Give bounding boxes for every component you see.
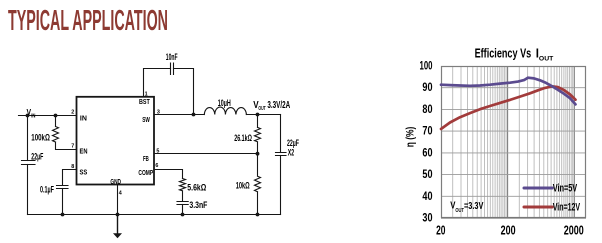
svg-text:2: 2	[71, 109, 74, 115]
svg-text:6: 6	[155, 163, 158, 169]
svg-text:50: 50	[422, 168, 432, 181]
svg-text:EN: EN	[80, 146, 88, 155]
svg-text:2000: 2000	[564, 223, 584, 238]
label VIN	[27, 108, 36, 120]
inductor 10uH	[204, 107, 246, 114]
svg-text:80: 80	[422, 103, 432, 116]
svg-text:5: 5	[156, 148, 159, 154]
schematic labels	[27, 52, 300, 210]
svg-text:40: 40	[422, 190, 432, 203]
resistor 5.6k compensation	[180, 179, 186, 202]
curve Vin=5V purple	[441, 78, 576, 105]
chart horizontal gridlines	[441, 88, 586, 197]
legend text Vin=12V	[553, 202, 581, 214]
pin name EN	[80, 146, 88, 155]
xlabel 2000	[564, 223, 584, 238]
svg-text:22µF: 22µF	[287, 138, 299, 148]
wire ground bus	[28, 214, 281, 216]
label VOUT 3.3V/2A	[253, 100, 290, 112]
capacitor 0.1uF soft-start	[57, 186, 69, 189]
svg-text:90: 90	[422, 81, 432, 94]
value 0.1uF	[40, 185, 54, 195]
value 100k	[31, 133, 50, 143]
svg-text:BST: BST	[139, 97, 150, 106]
node comp ground junction	[181, 213, 185, 217]
pin numbers	[71, 91, 160, 196]
legend line Vin=5V	[524, 187, 552, 190]
svg-text:X2: X2	[288, 147, 294, 157]
ground	[113, 215, 122, 239]
svg-text:20: 20	[436, 223, 445, 238]
node FB junction	[256, 152, 260, 156]
wire COMP	[154, 170, 183, 179]
pin name COMP	[138, 168, 153, 177]
svg-text:3: 3	[157, 109, 160, 115]
value 10uH	[218, 98, 231, 108]
svg-text:η (%): η (%)	[405, 126, 417, 147]
IC pin names	[80, 97, 154, 186]
svg-text:7: 7	[71, 143, 74, 149]
svg-text:3.3V/2A: 3.3V/2A	[267, 100, 290, 111]
svg-text:IN: IN	[31, 113, 36, 119]
node SS ground junction	[61, 213, 65, 217]
legend text Vin=5V	[553, 182, 578, 194]
ylabel 60	[422, 146, 432, 159]
svg-text:TYPICAL APPLICATION: TYPICAL APPLICATION	[8, 5, 168, 37]
wire comp branch lower	[182, 205, 184, 215]
y axis title eta percent	[405, 126, 417, 147]
pin name FB	[143, 154, 149, 163]
annotation VOUT=3.3V	[450, 201, 483, 214]
svg-text:100kΩ: 100kΩ	[31, 133, 50, 143]
svg-text:5.6kΩ: 5.6kΩ	[187, 183, 206, 193]
curve Vin=12V red	[441, 86, 576, 129]
wire BST right riser	[174, 69, 194, 115]
ylabel 70	[422, 125, 432, 138]
pin number 5	[156, 148, 159, 154]
resistor 26.1k upper divider	[255, 115, 261, 154]
capacitor 3.3nF compensation	[177, 202, 188, 205]
ylabel 40	[422, 190, 432, 203]
ylabel 100	[420, 60, 433, 73]
chart major vertical gridlines 200 and 2000	[508, 66, 575, 218]
svg-text:OUT: OUT	[455, 208, 464, 214]
svg-text:10kΩ: 10kΩ	[236, 180, 250, 190]
svg-text:Vin=5V: Vin=5V	[553, 182, 578, 194]
pin name BST	[139, 97, 150, 106]
svg-text:10µH: 10µH	[218, 98, 231, 108]
wire C1 branch upper	[27, 116, 29, 161]
value X2	[288, 147, 294, 157]
wire C1 branch lower	[27, 165, 29, 215]
svg-text:1: 1	[145, 91, 148, 97]
value 22uF input	[31, 152, 43, 162]
svg-text:GND: GND	[110, 177, 121, 186]
pin number 8	[71, 164, 74, 170]
svg-text:COMP: COMP	[138, 168, 153, 177]
capacitor 22uF input	[22, 161, 36, 165]
resistor 10k lower divider	[255, 154, 261, 215]
resistor 100k	[53, 116, 59, 143]
legend line Vin=12V	[524, 206, 552, 209]
capacitor 10nF bootstrap	[171, 63, 174, 75]
pin name SS	[80, 167, 88, 176]
value 10nF	[166, 52, 178, 62]
svg-text:IN: IN	[80, 113, 87, 122]
svg-text:=3.3V: =3.3V	[464, 201, 484, 212]
svg-text:26.1kΩ: 26.1kΩ	[234, 133, 252, 143]
wire BST left riser	[144, 69, 171, 97]
svg-text:SS: SS	[80, 167, 88, 176]
chart title Efficiency Vs IOUT	[475, 46, 554, 63]
wire SS	[63, 170, 77, 186]
node SW junction	[192, 113, 196, 117]
pin number 2	[71, 109, 74, 115]
xlabel 200	[501, 223, 516, 238]
wire output cap branch upper	[280, 115, 282, 153]
svg-text:8: 8	[71, 164, 74, 170]
y axis labels	[420, 60, 433, 225]
svg-text:22µF: 22µF	[31, 152, 43, 162]
pin number 3	[157, 109, 160, 115]
node GND junction	[116, 213, 120, 217]
pin number 1	[145, 91, 148, 97]
node VOUT junction	[256, 113, 260, 117]
ylabel 50	[422, 168, 432, 181]
chart frame	[441, 67, 586, 218]
svg-text:OUT: OUT	[258, 106, 266, 112]
svg-text:0.1µF: 0.1µF	[40, 185, 54, 195]
pin number 6	[155, 163, 158, 169]
svg-text:FB: FB	[143, 154, 149, 163]
wire inductor to VOUT node	[246, 114, 280, 116]
value 22uF output	[287, 138, 299, 148]
svg-text:Vin=12V: Vin=12V	[553, 202, 581, 214]
chart minor vertical gridlines	[453, 66, 573, 218]
pin number 7	[71, 143, 74, 149]
IC U1 buck regulator body	[77, 97, 155, 185]
ylabel 30	[422, 212, 432, 225]
xlabel 20	[436, 223, 445, 238]
wire EN	[56, 142, 77, 150]
ylabel 90	[422, 81, 432, 94]
value 10k	[236, 180, 250, 190]
svg-text:Efficiency Vs: Efficiency Vs	[475, 46, 532, 61]
svg-text:60: 60	[422, 146, 432, 159]
svg-text:30: 30	[422, 212, 432, 225]
svg-text:4: 4	[119, 190, 122, 196]
node VIN junction R1	[54, 114, 58, 118]
wire FB	[154, 153, 258, 155]
x axis labels	[436, 223, 584, 238]
wire GND pin	[117, 185, 119, 215]
svg-text:100: 100	[420, 60, 433, 73]
value 3.3nF	[189, 200, 207, 210]
node VIN junction C1	[26, 114, 30, 118]
wire output cap branch lower	[280, 156, 282, 215]
wire SS branch lower	[62, 189, 64, 215]
pin name SW	[142, 115, 150, 124]
wire SW	[154, 114, 204, 116]
svg-text:10nF: 10nF	[166, 52, 178, 62]
value 26.1k	[234, 133, 252, 143]
wire VIN input	[19, 115, 77, 117]
svg-text:OUT: OUT	[539, 56, 553, 63]
svg-text:SW: SW	[142, 115, 150, 124]
svg-text:3.3nF: 3.3nF	[189, 200, 207, 210]
capacitor 22uF X2 output	[276, 153, 287, 156]
section title TYPICAL APPLICATION	[8, 5, 168, 37]
ylabel 80	[422, 103, 432, 116]
node 10k ground junction	[256, 213, 260, 217]
pin name IN	[80, 113, 87, 122]
svg-text:200: 200	[501, 223, 516, 238]
value 5.6k	[187, 183, 206, 193]
pin number 4	[119, 190, 122, 196]
pin name GND	[110, 177, 121, 186]
svg-text:70: 70	[422, 125, 432, 138]
